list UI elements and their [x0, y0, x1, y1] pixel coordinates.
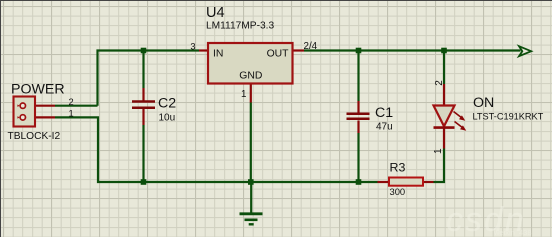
- svg-text:2/4: 2/4: [304, 41, 318, 52]
- svg-text:2: 2: [434, 80, 445, 86]
- svg-text:R3: R3: [390, 161, 406, 175]
- svg-text:C1: C1: [375, 105, 393, 121]
- svg-text:ON: ON: [473, 95, 494, 111]
- svg-text:1: 1: [69, 109, 74, 119]
- svg-text:C2: C2: [158, 96, 176, 112]
- svg-text:47u: 47u: [376, 122, 393, 133]
- svg-text:1: 1: [433, 148, 444, 154]
- svg-text:10u: 10u: [159, 113, 176, 124]
- svg-text:300: 300: [390, 186, 406, 197]
- svg-text:GND: GND: [239, 71, 262, 82]
- svg-text:LM1117MP-3.3: LM1117MP-3.3: [206, 21, 274, 32]
- svg-text:IN: IN: [213, 49, 223, 60]
- svg-text:OUT: OUT: [267, 49, 290, 60]
- svg-text:1: 1: [241, 89, 246, 100]
- svg-text:POWER: POWER: [11, 82, 65, 98]
- svg-text:LTST-C191KRKT: LTST-C191KRKT: [473, 112, 544, 122]
- svg-text:TBLOCK-I2: TBLOCK-I2: [8, 131, 61, 142]
- svg-text:U4: U4: [206, 5, 225, 21]
- svg-text:3: 3: [190, 42, 195, 52]
- svg-text:weixin_438: weixin_438: [493, 228, 532, 237]
- svg-text:2: 2: [69, 97, 74, 107]
